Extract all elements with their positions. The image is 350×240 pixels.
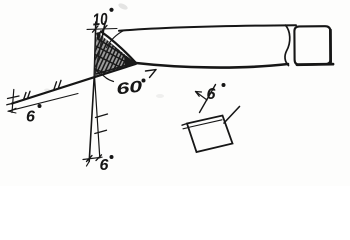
svg-text:60: 60 — [115, 78, 143, 98]
svg-text:6: 6 — [207, 86, 216, 103]
svg-text:10: 10 — [92, 9, 109, 29]
svg-text:6: 6 — [26, 109, 35, 126]
svg-text:6: 6 — [100, 157, 109, 174]
